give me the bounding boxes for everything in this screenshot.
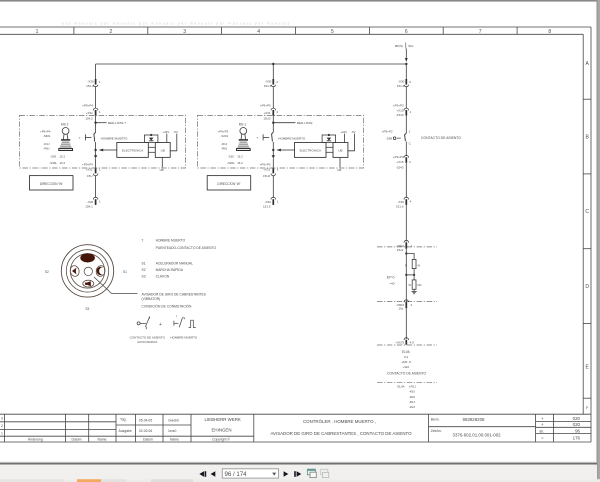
svg-text:ELECTRONICA: ELECTRONICA (300, 149, 321, 153)
column numbers (36, 29, 552, 35)
revision rows (0, 421, 116, 423)
svg-text:S2: S2 (45, 270, 49, 274)
drawing frame outer right line (590, 27, 592, 442)
switch seat contact -S99 (382, 130, 462, 146)
svg-text:-X30: -X30 (87, 200, 94, 204)
wire between resistors (413, 269, 415, 280)
row ruler ticks (583, 98, 591, 100)
svg-text:+P9+P5: +P9+P5 (260, 104, 271, 108)
svg-text:UB: UB (160, 168, 164, 172)
node resistor tap top (405, 252, 407, 254)
wire electronica arrow (MS2) (102, 149, 117, 151)
wire LIN stub down (MS1) (337, 157, 341, 172)
svg-text:HOMBRE MUERTO: HOMBRE MUERTO (170, 335, 198, 339)
button left S2 (69, 265, 80, 278)
svg-text:3: 3 (183, 29, 186, 35)
electronics unit U (MS2) (117, 143, 149, 158)
svg-text:EP 0: EP 0 (387, 276, 395, 280)
svg-text:Name: Name (170, 438, 179, 442)
CONTROLLER (45, 245, 138, 311)
toolbar background (0, 465, 597, 480)
svg-text:C: C (585, 209, 589, 215)
controller middle ring (66, 250, 108, 292)
diode on MS2 line (94, 155, 97, 158)
svg-text:-S201: -S201 (220, 134, 228, 138)
svg-text:ELECTRONICA: ELECTRONICA (122, 149, 143, 153)
svg-text:+X15: +X15 (396, 160, 403, 164)
wire segment to ELVA (405, 308, 407, 339)
connector -X802 pin1 (396, 240, 413, 252)
wire MS1 segment (272, 87, 274, 108)
wire segment (405, 163, 407, 198)
wire BED-LISTE (MS1) (273, 122, 295, 124)
symbol pulse waveform (189, 320, 196, 327)
svg-text:+: + (541, 416, 544, 421)
svg-text:R: R (405, 263, 407, 267)
connector -X30 pin1 (MS2 top) (86, 79, 101, 88)
benn/zeichn divider (429, 426, 536, 428)
wire MS1 drop from bus (272, 64, 274, 80)
button top (hombre muerto pad) (80, 253, 95, 262)
svg-text:02.02.06: 02.02.06 (139, 429, 152, 433)
nav: prev page button (211, 471, 216, 477)
svg-text:-1543: -1543 (396, 113, 404, 117)
svg-text:lweck0: lweck0 (169, 418, 179, 422)
svg-text:CONTACTO DE ASIENTO: CONTACTO DE ASIENTO (387, 371, 426, 375)
svg-text:154.2: 154.2 (85, 117, 93, 121)
svg-text:Änderung: Änderung (28, 438, 43, 442)
svg-text:S3: S3 (85, 307, 89, 311)
svg-text:96 / 174: 96 / 174 (225, 471, 248, 478)
connector -X30 pin5 (397, 79, 412, 88)
svg-text:6: 6 (405, 29, 408, 35)
center knob (84, 267, 92, 275)
controller outer ring (61, 245, 113, 297)
svg-text:+P9+P2: +P9+P2 (382, 130, 393, 134)
LIN box (MS1) (333, 143, 348, 158)
svg-text:Name: Name (98, 438, 107, 442)
svg-text:-1543: -1543 (396, 165, 404, 169)
svg-text:-5V: -5V (351, 130, 356, 134)
svg-text:+24V: +24V (163, 130, 170, 134)
svg-text:S2: S2 (142, 268, 146, 272)
svg-text:D: D (585, 284, 589, 290)
bottom strip (taskbar top) (0, 479, 600, 482)
wire to resistor R1 (406, 254, 414, 260)
drawing frame outer top line (0, 26, 591, 28)
node BED-LISTE tap (MS2) (94, 122, 96, 124)
svg-text:=: = (541, 436, 544, 441)
wire MS1 segment (272, 176, 274, 198)
svg-text:MS 2: MS 2 (61, 123, 69, 127)
page number combo box (222, 469, 278, 478)
svg-text:CONTACTO DE ASIENTO: CONTACTO DE ASIENTO (130, 335, 166, 339)
svg-text:151.4: 151.4 (86, 84, 94, 88)
joystick MS1 labels (218, 130, 229, 151)
svg-text:HOMBRE MUERTO: HOMBRE MUERTO (101, 136, 129, 140)
svg-text:15U2: 15U2 (263, 174, 271, 178)
leader line to vibrator note (94, 277, 138, 294)
svg-text:-R0J: -R0J (409, 395, 416, 399)
svg-text:2: 2 (110, 29, 113, 35)
nav: last page button (294, 471, 296, 477)
svg-text:7.: 7. (142, 238, 145, 242)
button bottom S3 claxon (83, 280, 94, 287)
svg-text:MARCHA RÁPIDA: MARCHA RÁPIDA (156, 268, 184, 272)
electronics unit U (MS1) (295, 143, 327, 158)
svg-text:8: 8 (548, 29, 551, 35)
svg-text:BED-LISTE 7: BED-LISTE 7 (108, 121, 126, 125)
ELVA dash-dot line (377, 344, 437, 346)
svg-text:+P9+P3: +P9+P3 (393, 155, 404, 159)
svg-text:020: 020 (573, 422, 581, 427)
ELVA destination list (398, 385, 417, 410)
svg-text:-R6J: -R6J (221, 147, 228, 151)
connector -X30 151.5 (MS1 end) (263, 197, 279, 208)
svg-text:4.0: 4.0 (410, 340, 415, 344)
connector +P9+P4 +X31 15U (MS2 bottom box edge) (82, 163, 101, 178)
svg-text:020: 020 (573, 416, 581, 421)
wire below switch (MS2) (95, 142, 97, 156)
switch hombre muerto S (MS1) (257, 132, 306, 141)
window right edge strip (597, 0, 600, 482)
svg-text:ACCIONADOA: ACCIONADOA (137, 340, 157, 344)
svg-text:-S99: -S99 (386, 136, 393, 140)
nav: first page button (199, 471, 215, 477)
toolbar top border (0, 462, 597, 463)
svg-text:15x: 15x (398, 307, 403, 311)
svg-text:1: 1 (1, 432, 3, 436)
faint watermark ghosts (62, 22, 291, 26)
TITLEBLOCK (0, 414, 591, 442)
svg-text:-S20: -S20 (228, 155, 234, 159)
svg-text:+: + (541, 422, 544, 427)
svg-text:5: 5 (331, 29, 334, 35)
svg-text:15U: 15U (87, 174, 93, 178)
node bus-SIG junction (405, 63, 407, 65)
connector -X30 pin3 (MS1 top) (264, 79, 279, 88)
svg-text:-X30: -X30 (398, 200, 405, 204)
wire MS2 segment (95, 159, 97, 168)
EP0 dash-dot top (377, 246, 437, 248)
svg-text:ACELERADOR MANUAL: ACELERADOR MANUAL (156, 262, 194, 266)
svg-text:S3: S3 (142, 275, 146, 279)
switch hombre muerto S (MS2) (79, 132, 128, 141)
svg-text:LIEBHERR WERK: LIEBHERR WERK (205, 417, 241, 422)
svg-text:UB: UB (338, 149, 342, 153)
svg-text:+X31: +X31 (86, 111, 93, 115)
symbol captions (130, 335, 198, 344)
svg-text:151.6: 151.6 (396, 205, 404, 209)
svg-text:HOMBRE MUERTO: HOMBRE MUERTO (156, 238, 186, 242)
svg-text:-K1: -K1 (404, 355, 409, 359)
wire drop from bus (405, 64, 407, 80)
svg-text:DR: DR (418, 283, 422, 287)
wire segment long (405, 205, 407, 242)
svg-text:3376-602.01.00.001-002: 3376-602.01.00.001-002 (453, 433, 502, 438)
svg-text:Zeichn.: Zeichn. (431, 429, 442, 433)
svg-text:PUENTEADO-CONTACTO DE ASIENTO: PUENTEADO-CONTACTO DE ASIENTO (156, 246, 217, 250)
svg-text:lwrz0: lwrz0 (169, 429, 177, 433)
node bus-MS1 junction (272, 63, 274, 65)
svg-text:DIRECCION 'W': DIRECCION 'W' (40, 182, 63, 186)
svg-text:+P9+P5: +P9+P5 (218, 130, 229, 134)
wire segment (405, 142, 407, 156)
svg-text:15.2: 15.2 (60, 155, 66, 159)
title block outline (0, 413, 591, 415)
svg-text:-Z30 .9: -Z30 .9 (401, 360, 411, 364)
connector +P9+P3 -X1S (393, 104, 412, 117)
capacitor block (MS1) (322, 134, 336, 143)
svg-text:AVISADOR DE GIRO DE CABRESTANT: AVISADOR DE GIRO DE CABRESTANTES (142, 293, 207, 297)
resistor R (EP0 upper) (412, 259, 416, 268)
svg-text:-5V: -5V (173, 130, 178, 134)
svg-text:Datum: Datum (143, 438, 153, 442)
MS1 enclosure dash-dot box (198, 115, 364, 168)
svg-text:S1: S1 (123, 270, 127, 274)
net label MP(S) / SIG (395, 43, 414, 49)
svg-text:BED-LISTE: BED-LISTE (297, 121, 313, 125)
svg-text:7: 7 (479, 29, 482, 35)
svg-text:+X675: +X675 (395, 340, 404, 344)
wire segment (405, 249, 407, 302)
node electronica tap (MS1) (272, 149, 274, 151)
svg-text:CONDICIÓN DE CONMUTACIÓN: CONDICIÓN DE CONMUTACIÓN (142, 303, 193, 308)
drawing frame inner top line (0, 33, 583, 35)
title block verticals (4, 414, 6, 442)
svg-text:+W2: +W2 (403, 365, 410, 369)
symbol hombre-muerto switch (174, 315, 185, 328)
svg-text:+P9+P3: +P9+P3 (393, 104, 404, 108)
taskbar orange item (77, 479, 101, 482)
svg-text:MP(S): MP(S) (395, 44, 404, 48)
wire MS2 segment (95, 176, 97, 198)
LIN box (MS2) (155, 143, 170, 158)
power -5V (MS1) (348, 130, 356, 151)
wire MS2 drop from bus (95, 64, 97, 80)
svg-text:15.2: 15.2 (60, 161, 66, 165)
ELVA block labels (387, 350, 426, 376)
svg-text:15.2: 15.2 (237, 161, 243, 165)
svg-text:+24V: +24V (340, 130, 347, 134)
wire segment (405, 87, 407, 108)
svg-text:-S20L: -S20L (227, 161, 235, 165)
svg-text:176: 176 (573, 436, 581, 441)
wire bus MP(S) horizontal (96, 63, 407, 65)
svg-text:-S301: -S301 (43, 134, 51, 138)
wire segment (405, 116, 407, 134)
svg-text:+40: +40 (389, 282, 394, 286)
resistor DR (EP0 lower) (412, 280, 416, 289)
joystick MS 2 (59, 123, 73, 151)
svg-text:CONTRÓLER . HOMBRE MUERTO ,: CONTRÓLER . HOMBRE MUERTO , (303, 419, 376, 424)
svg-text:Copyright ©: Copyright © (212, 438, 230, 442)
window top border (0, 0, 600, 2)
wire electronica-LIN links (MS1) (326, 147, 333, 152)
node BED-LISTE tap (MS1) (272, 122, 274, 124)
svg-text:-R1J: -R1J (409, 400, 416, 404)
wire MS2 segment (95, 116, 97, 133)
capacitor block (MS2) (144, 134, 158, 143)
wire electronica arrow (MS1) (279, 149, 294, 151)
nav: next page button (284, 471, 302, 477)
svg-text:-X30: -X30 (265, 200, 272, 204)
svg-text:EHINGEN: EHINGEN (212, 428, 232, 433)
svg-text:-S30L: -S30L (49, 161, 57, 165)
svg-text:-R6J: -R6J (43, 147, 50, 151)
svg-text:1: 1 (36, 29, 39, 35)
joystick MS2 labels (40, 130, 51, 151)
connector +X675 (ELVA) (395, 338, 414, 345)
svg-text:96: 96 (575, 428, 580, 433)
joystick MS 1 (237, 123, 251, 151)
button right S1 (95, 265, 106, 278)
svg-text:-S30: -S30 (50, 155, 56, 159)
svg-text:pat manuals pat manuals pat: pat manuals pat manuals pat manuals pat … (62, 22, 291, 26)
controller inner ring (70, 254, 104, 288)
wire LIN stub down (MS2) (160, 157, 164, 172)
svg-text:Benn.: Benn. (431, 418, 440, 422)
icon: insert pages (teal) (307, 469, 316, 477)
symbol seat-contact switch (137, 316, 149, 329)
wire BED-LISTE (MS2) (96, 122, 107, 124)
svg-text:15U2: 15U2 (263, 117, 271, 121)
ELVA dash-dot line 2 (377, 381, 437, 383)
svg-text:S1: S1 (142, 262, 146, 266)
svg-text:Datum: Datum (72, 438, 82, 442)
svg-text:UB: UB (161, 149, 165, 153)
direccion W box (MS2) (30, 176, 74, 190)
wire MS1 segment (272, 116, 274, 133)
connector -X30 154 (MS2 end) (85, 197, 101, 208)
svg-text:HOMBRE MUERTO: HOMBRE MUERTO (278, 136, 306, 140)
svg-text:CONTACTO DE ASIENTO: CONTACTO DE ASIENTO (421, 136, 461, 140)
svg-text:05.04.05: 05.04.05 (139, 418, 152, 422)
power +24V (MS1) (340, 130, 347, 143)
connector +P9+P3 +X15 pin2 (393, 155, 411, 169)
svg-text:+P9+P4: +P9+P4 (82, 163, 93, 167)
svg-text:+P9+P5: +P9+P5 (260, 163, 271, 167)
svg-text:ELVA: ELVA (402, 350, 411, 354)
wire mid tap to main (406, 274, 414, 276)
icon: insert pages 2 (dim) (320, 469, 328, 477)
svg-text:+X15: +X15 (396, 108, 403, 112)
wire below switch (MS1) (272, 142, 274, 156)
svg-text:+R1J: +R1J (409, 385, 416, 389)
connector +P9+P5 +X31 15U2 (MS1 bottom box edge) (260, 163, 279, 178)
row letters (585, 61, 589, 410)
EP0 dash-dot bottom (377, 300, 437, 302)
svg-text:-R2J: -R2J (409, 405, 416, 409)
svg-text:Tag.: Tag. (120, 418, 126, 422)
ground (EP0) (412, 289, 417, 294)
svg-text:Bl.: Bl. (540, 429, 544, 433)
node electronica tap (MS2) (94, 149, 96, 151)
svg-text:DIRECCION 'W': DIRECCION 'W' (217, 182, 240, 186)
right mini rows (536, 421, 591, 423)
wire MS2 segment (95, 87, 97, 108)
svg-text:154.1: 154.1 (85, 205, 93, 209)
column ruler ticks (73, 27, 75, 34)
svg-text:Ausgabe: Ausgabe (119, 429, 132, 433)
connector +P9+P5 +X31 (MS1) (260, 104, 279, 121)
svg-text:-R1J: -R1J (43, 142, 50, 146)
svg-text:151.5: 151.5 (263, 205, 271, 209)
svg-text:151.5: 151.5 (264, 84, 272, 88)
svg-text:MS 1: MS 1 (239, 123, 247, 127)
wire MS1 segment (272, 159, 274, 168)
power +24V (MS2) (163, 130, 170, 143)
svg-text:+P9+P4: +P9+P4 (40, 130, 51, 134)
diode on MS1 line (272, 155, 275, 158)
MS2 enclosure dash-dot box (20, 115, 186, 168)
svg-text:2: 2 (1, 424, 3, 428)
svg-text:3: 3 (1, 417, 3, 421)
svg-text:-R1J: -R1J (221, 142, 228, 146)
connector -X804 pin4 (396, 300, 413, 311)
drawing frame inner right line (582, 34, 584, 414)
svg-text:+: + (159, 322, 162, 328)
wire electronica-LIN links (MS2) (148, 147, 155, 152)
svg-text:+X31: +X31 (263, 111, 270, 115)
svg-text:-K6J: -K6J (409, 390, 415, 394)
svg-text:983928208: 983928208 (463, 417, 486, 422)
svg-text:15x2: 15x2 (397, 248, 404, 252)
LEGEND (130, 238, 217, 344)
wire SIG arrow down to bus (405, 49, 407, 59)
connector -X30 151.6 pin4 (396, 197, 412, 208)
svg-text:15.2: 15.2 (237, 155, 243, 159)
power -5V (MS2) (170, 130, 178, 151)
svg-text:CLAXON: CLAXON (156, 275, 170, 279)
svg-text:4: 4 (257, 29, 260, 35)
svg-text:ELVA: ELVA (398, 385, 405, 389)
svg-text:151.3: 151.3 (397, 84, 405, 88)
svg-text:SIG: SIG (408, 44, 414, 48)
svg-text:(VIBRATOR): (VIBRATOR) (142, 297, 161, 301)
svg-text:UB: UB (337, 168, 341, 172)
connector +P9+P4 +X31 (MS2) (82, 104, 101, 121)
svg-text:+P9+P4: +P9+P4 (82, 104, 93, 108)
node resistor tap mid (413, 274, 415, 276)
direccion W box (MS1) (207, 176, 251, 190)
svg-text:AVISADOR DE GIRO DE CABRESTANT: AVISADOR DE GIRO DE CABRESTANTES , CONTA… (270, 431, 412, 436)
